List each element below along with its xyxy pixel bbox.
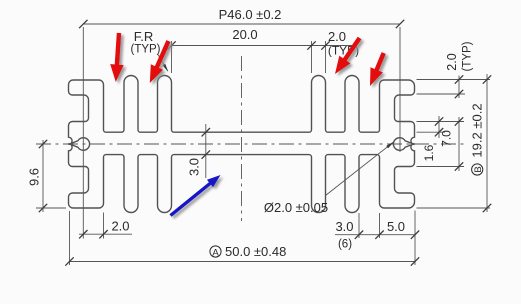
svg-text:1.6: 1.6 xyxy=(422,144,436,161)
svg-text:(6): (6) xyxy=(338,239,352,251)
svg-text:2.0: 2.0 xyxy=(328,29,346,44)
svg-text:19.2 ±0.2: 19.2 ±0.2 xyxy=(470,103,485,157)
svg-text:3.0: 3.0 xyxy=(335,219,353,234)
svg-text:2.0: 2.0 xyxy=(111,219,129,234)
svg-text:7.0: 7.0 xyxy=(440,130,454,147)
svg-text:2.0: 2.0 xyxy=(445,53,459,70)
svg-text:(TYP): (TYP) xyxy=(462,41,474,71)
svg-text:3.0: 3.0 xyxy=(187,158,202,176)
svg-text:20.0: 20.0 xyxy=(232,27,257,42)
svg-text:A: A xyxy=(212,247,219,258)
svg-text:(TYP): (TYP) xyxy=(130,44,160,56)
svg-text:5.0: 5.0 xyxy=(387,219,405,234)
svg-text:P46.0 ±0.2: P46.0 ±0.2 xyxy=(219,7,282,22)
svg-text:B: B xyxy=(473,166,484,172)
svg-text:50.0 ±0.48: 50.0 ±0.48 xyxy=(225,244,286,259)
svg-text:Ø2.0 ±0.05: Ø2.0 ±0.05 xyxy=(264,200,328,215)
svg-text:F.R: F.R xyxy=(134,29,154,44)
svg-text:9.6: 9.6 xyxy=(27,168,42,186)
